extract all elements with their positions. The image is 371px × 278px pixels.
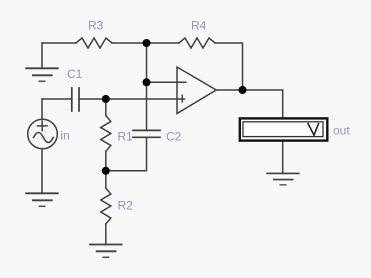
voltmeter M1 inner box <box>243 122 323 137</box>
node C1-R1 junction dot <box>102 95 110 103</box>
wire inverting input <box>147 81 186 83</box>
source V1 circle <box>28 119 58 149</box>
resistor R3 <box>76 38 112 48</box>
wire source top to C1 <box>41 99 43 120</box>
svg-text:R4: R4 <box>191 19 207 33</box>
wire R3 to node A and to R4 <box>112 42 179 44</box>
capacitor C1 <box>72 88 79 111</box>
op-amp U1 <box>177 67 216 114</box>
node B R1-R2-C2 junction dot <box>102 167 110 175</box>
svg-text:C1: C1 <box>67 67 83 81</box>
wire op-amp output to node C <box>216 89 242 91</box>
node inverting-input junction dot <box>143 78 151 86</box>
ground G1 top-left <box>25 68 58 81</box>
wire source bottom to ground <box>41 149 43 194</box>
wire node A down through inverting node to C2 <box>146 43 148 130</box>
wire R1 top lead <box>105 99 107 116</box>
wire C1 left lead <box>42 98 72 100</box>
ground G4 under voltmeter <box>266 173 299 184</box>
wire C2 bottom to node B <box>106 137 147 171</box>
svg-text:C2: C2 <box>166 130 182 144</box>
wire R2 top lead <box>105 171 107 188</box>
svg-text:in: in <box>60 129 69 143</box>
source V1 sine wave <box>34 133 54 143</box>
voltmeter M1 V glyph <box>308 123 319 135</box>
ground G3 under R2 <box>89 245 122 258</box>
resistor R4 <box>179 38 215 48</box>
wire top bus left segment <box>42 42 76 44</box>
svg-text:out: out <box>333 124 350 138</box>
op-amp U1 plus marker <box>181 95 183 102</box>
wire R1 bottom lead <box>105 152 107 171</box>
wire R2 to ground <box>105 224 107 245</box>
resistor R2 <box>101 188 111 224</box>
ground G2 under source <box>25 193 58 206</box>
source V1 plus sign <box>38 121 48 130</box>
node A junction dot <box>143 39 151 47</box>
svg-text:R1: R1 <box>118 130 134 144</box>
svg-text:R3: R3 <box>88 19 104 33</box>
wire left drop to ground <box>41 43 43 68</box>
resistor R1 <box>101 116 111 152</box>
wire voltmeter to ground <box>282 141 284 173</box>
wire C1 to non-inverting input <box>79 98 184 100</box>
voltmeter M1 outer box <box>240 118 327 140</box>
wire node C to voltmeter <box>243 90 283 118</box>
svg-text:R2: R2 <box>118 199 134 213</box>
wire R4 to output corner <box>215 43 243 90</box>
capacitor C2 <box>133 130 160 137</box>
node C output junction dot <box>239 86 247 94</box>
